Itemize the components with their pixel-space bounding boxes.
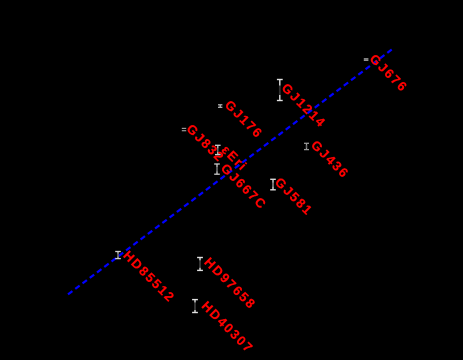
node GJ436 error bar <box>304 143 309 149</box>
node GJ676 error bar <box>364 59 369 61</box>
node GJ1214 error bar <box>277 80 283 101</box>
node GJ667C error bar <box>214 164 220 174</box>
node GJ176 error bar <box>218 105 222 108</box>
node epsilon Eri error bar <box>215 145 221 154</box>
node HD40307 error bar <box>192 300 198 313</box>
node GJ581 error bar <box>270 179 276 190</box>
node GJ832 error bar <box>182 128 186 130</box>
node HD85512 error bar <box>115 252 121 259</box>
node HD97658 error bar <box>197 258 203 271</box>
wire: dashed blue fit line <box>68 49 392 294</box>
